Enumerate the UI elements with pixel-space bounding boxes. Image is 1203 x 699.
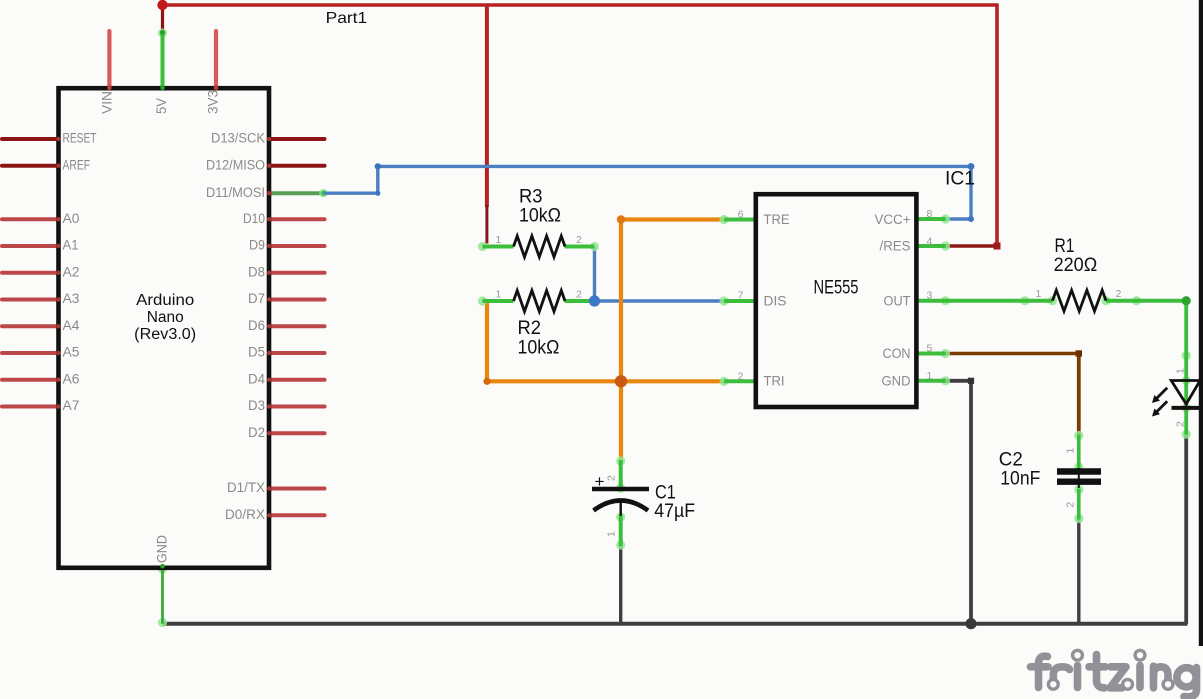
svg-text:6: 6 (738, 209, 744, 221)
svg-text:10nF: 10nF (1000, 467, 1040, 489)
svg-text:1: 1 (1036, 288, 1042, 300)
svg-text:1: 1 (1065, 448, 1077, 454)
svg-text:D8: D8 (248, 264, 265, 279)
svg-text:A1: A1 (63, 238, 79, 253)
svg-text:D7: D7 (248, 291, 265, 306)
svg-text:3V3: 3V3 (206, 90, 221, 114)
svg-text:+: + (595, 472, 605, 491)
svg-text:D9: D9 (249, 238, 265, 253)
svg-text:(Rev3.0): (Rev3.0) (134, 326, 196, 343)
svg-text:2: 2 (1065, 502, 1077, 508)
svg-text:VCC+: VCC+ (875, 212, 911, 227)
svg-text:5: 5 (927, 343, 933, 355)
svg-text:GND: GND (155, 535, 170, 563)
svg-text:1: 1 (496, 234, 502, 246)
svg-text:2: 2 (576, 289, 582, 301)
svg-text:2: 2 (606, 475, 618, 481)
svg-text:VIN: VIN (100, 91, 115, 114)
svg-text:A7: A7 (63, 398, 80, 413)
svg-text:4: 4 (927, 235, 933, 247)
svg-text:47µF: 47µF (654, 500, 695, 522)
svg-text:/RES: /RES (880, 239, 911, 254)
svg-text:IC1: IC1 (945, 168, 975, 189)
svg-text:D13/SCK: D13/SCK (211, 131, 265, 146)
svg-text:RESET: RESET (63, 131, 97, 146)
svg-text:A6: A6 (63, 371, 80, 386)
svg-text:A3: A3 (63, 291, 80, 306)
svg-text:A4: A4 (63, 318, 81, 333)
svg-text:1: 1 (496, 289, 502, 301)
svg-text:D10: D10 (243, 211, 265, 226)
svg-text:TRE: TRE (764, 212, 790, 227)
svg-text:Nano: Nano (147, 309, 184, 326)
svg-text:A5: A5 (63, 345, 80, 360)
svg-text:1: 1 (927, 370, 933, 382)
svg-text:220Ω: 220Ω (1054, 254, 1098, 276)
svg-text:2: 2 (576, 234, 582, 246)
svg-text:NE555: NE555 (814, 278, 859, 299)
svg-text:1: 1 (1175, 368, 1187, 374)
svg-text:D6: D6 (248, 318, 265, 333)
svg-text:D2: D2 (248, 425, 265, 440)
svg-text:1: 1 (606, 531, 618, 537)
svg-text:D12/MISO: D12/MISO (206, 157, 265, 172)
svg-text:2: 2 (1116, 288, 1122, 300)
svg-text:CON: CON (883, 346, 911, 361)
svg-text:D4: D4 (248, 371, 265, 386)
svg-text:Part1: Part1 (326, 10, 368, 27)
svg-text:10kΩ: 10kΩ (519, 205, 561, 227)
svg-text:D3: D3 (248, 398, 265, 413)
svg-text:D1/TX: D1/TX (227, 480, 265, 495)
svg-text:8: 8 (927, 208, 933, 220)
svg-text:TRI: TRI (764, 374, 785, 389)
svg-text:GND: GND (882, 374, 911, 389)
svg-text:7: 7 (738, 290, 744, 302)
svg-text:D11/MOSI: D11/MOSI (206, 185, 265, 200)
svg-text:Arduino: Arduino (136, 292, 194, 309)
svg-text:DIS: DIS (764, 293, 787, 308)
svg-text:10kΩ: 10kΩ (518, 336, 560, 358)
svg-text:D5: D5 (248, 345, 265, 360)
svg-text:A2: A2 (63, 264, 80, 279)
svg-text:A0: A0 (63, 211, 80, 226)
svg-text:5V: 5V (154, 98, 169, 114)
svg-text:OUT: OUT (884, 293, 911, 308)
svg-text:AREF: AREF (63, 157, 91, 172)
svg-text:3: 3 (927, 290, 933, 302)
svg-text:2: 2 (738, 370, 744, 382)
svg-text:D0/RX: D0/RX (225, 507, 265, 522)
svg-text:2: 2 (1175, 421, 1187, 427)
